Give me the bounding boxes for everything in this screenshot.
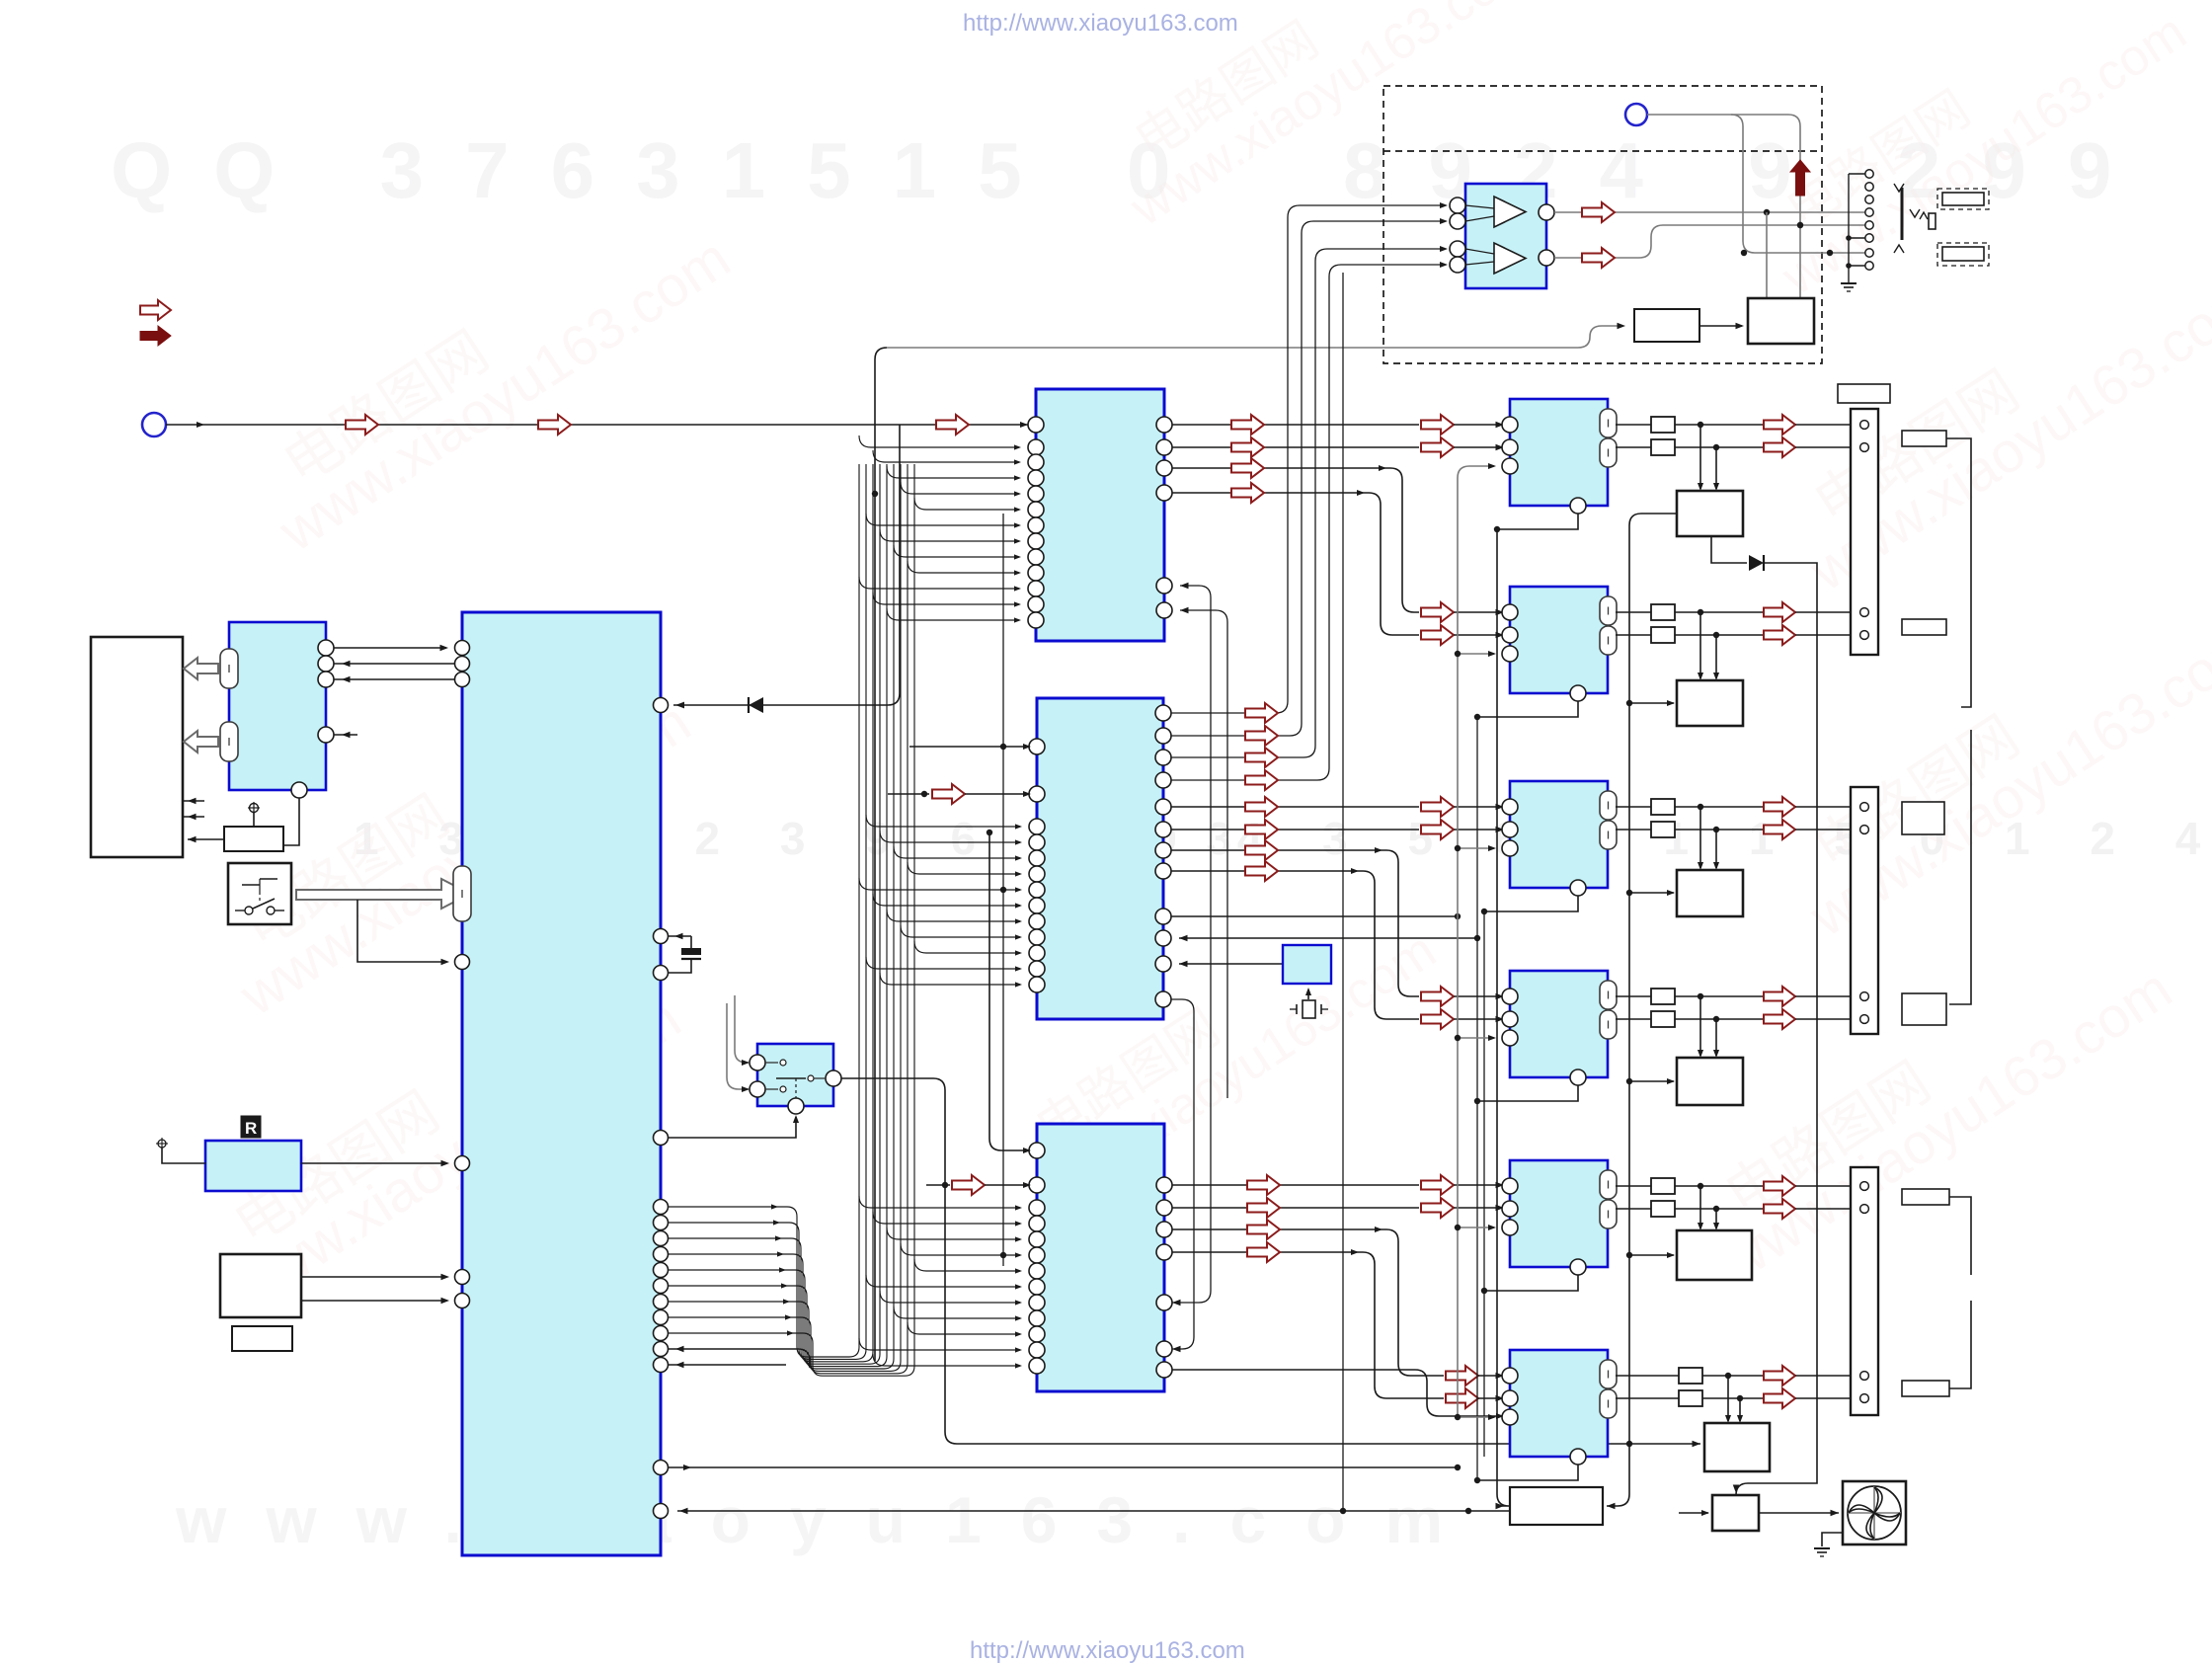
bracket 4 — [1949, 1301, 1971, 1388]
pin B bottom — [1570, 685, 1586, 701]
wire pin3 feed — [1458, 1037, 1494, 1039]
headphone jack contacts — [1865, 170, 1873, 178]
dot E1 — [1698, 1183, 1703, 1189]
pill B out2 — [1600, 626, 1617, 655]
wire branch IC103 — [873, 1354, 1020, 1366]
wire A out2 — [1616, 446, 1651, 448]
wire E bottom pin — [1484, 1275, 1578, 1291]
pill port 1 — [220, 649, 238, 688]
resistor RB1 — [1651, 604, 1675, 620]
pin IC102 R4 — [1155, 772, 1171, 788]
pin IC103 R7 — [1156, 1362, 1172, 1378]
svg-text:R: R — [245, 1119, 257, 1138]
wire branch IC101 — [873, 450, 1019, 462]
jack wiring — [1849, 173, 1865, 175]
wire branch IC103 — [859, 1338, 1020, 1350]
IC102 audio processor — [1037, 698, 1163, 1019]
power block — [220, 1254, 301, 1317]
arrow IC103 out4 s2 — [1446, 1388, 1478, 1408]
arrow F out2 — [1764, 1388, 1795, 1408]
pin IC101 R3 — [1156, 460, 1172, 476]
dot IC101 in5 — [872, 491, 878, 497]
pin IC001 d0 — [654, 1200, 669, 1215]
arrow C out2 — [1764, 820, 1795, 839]
pin IC103 L13 — [1029, 1358, 1045, 1374]
pin IC101 L10 — [1028, 565, 1044, 581]
pin IC101 fbB — [1156, 602, 1172, 618]
pin IC001 ps1 — [455, 1270, 470, 1285]
wire branch IC102 — [866, 957, 1020, 969]
pill F out1 — [1600, 1360, 1617, 1388]
wire branch IC103 — [880, 1291, 1020, 1303]
wire branch IC101 — [866, 514, 1019, 525]
wire E out1 — [1616, 1185, 1651, 1187]
pin IC103 L8 — [1029, 1279, 1045, 1295]
white arrow to display 2 — [184, 731, 218, 752]
wire branch IC102 — [908, 862, 1020, 874]
arrow IC102 out6 s2 — [1421, 820, 1454, 839]
pin IC103 R3 — [1156, 1222, 1172, 1237]
wire IC001 bottom in — [677, 1510, 1510, 1512]
pill IC001 key-in — [453, 866, 471, 921]
wire bus x1476 pin3 feeds — [1458, 466, 1494, 1418]
wire branch IC102 — [880, 831, 1020, 842]
input node circle — [142, 413, 166, 436]
wire SW101 out — [841, 1078, 1700, 1444]
wire branch IC102 — [866, 815, 1020, 827]
wire branch IC103 — [901, 1243, 1020, 1255]
ground fan — [1822, 1533, 1843, 1546]
dot A1 — [1698, 422, 1703, 428]
wire pin3 feed — [1458, 1416, 1494, 1418]
dot C1 — [1698, 804, 1703, 810]
pin IC102 L3 — [1029, 819, 1045, 834]
wire IC101 fbB — [1180, 610, 1227, 1098]
pill A out2 — [1600, 438, 1617, 467]
pin B3 — [1502, 646, 1518, 662]
wire SW101 in2 — [727, 1003, 749, 1089]
pin IC001 ps2 — [455, 1294, 470, 1308]
IR receiver block — [205, 1141, 301, 1191]
pin IC201 out3 — [318, 672, 334, 687]
pill E out2 — [1600, 1200, 1617, 1228]
pin IC102 L9 — [1029, 913, 1045, 929]
power switch block — [228, 863, 291, 924]
pin IC001 L1 — [455, 641, 470, 656]
pin HP L3 — [1450, 241, 1465, 257]
wire branch IC103 — [914, 1259, 1020, 1271]
arrow B out2 — [1764, 625, 1795, 645]
pin IC001 sw — [654, 1131, 669, 1146]
pin IC102 L13 — [1029, 977, 1045, 992]
bracket 2 — [1949, 730, 1971, 1004]
wire SW101 bottom feed — [669, 1117, 796, 1138]
pin IC103 R6 — [1156, 1341, 1172, 1357]
pin C bottom — [1570, 880, 1586, 896]
arrow input 3 — [936, 415, 969, 435]
fan motor — [1843, 1481, 1906, 1544]
pin IC103 L3 — [1029, 1200, 1045, 1216]
pin IC102 L12 — [1029, 961, 1045, 977]
resistor RF1 — [1679, 1368, 1702, 1384]
wire bus IC201-IC001 1 — [334, 647, 446, 649]
power arrow up — [1790, 160, 1810, 196]
wire branch IC102 — [894, 846, 1020, 858]
connector CN2 — [1851, 787, 1878, 1034]
resistor RA1 — [1651, 417, 1675, 433]
pin IC101 L12 — [1028, 596, 1044, 612]
label A — [1902, 431, 1946, 446]
buffer amp 2 — [1494, 243, 1526, 274]
wire IC001 bottom out — [669, 1466, 1458, 1468]
wire branch IC101 — [908, 561, 1019, 573]
wire gray rect2 up — [1766, 212, 1768, 298]
white arrow to display 1 — [184, 658, 218, 679]
watermark pink rotated — [238, 181, 741, 564]
resistor RF2 — [1679, 1390, 1702, 1406]
wire D out1 — [1616, 995, 1651, 997]
wire bus IC201-IC001 2 — [334, 663, 454, 665]
pin IC001 d2 — [654, 1231, 669, 1246]
wire D out2 — [1616, 1018, 1651, 1020]
wire branch IC102 — [914, 941, 1020, 953]
wire C out2 — [1616, 829, 1651, 831]
pin C2 — [1502, 822, 1518, 837]
bracket 3 — [1949, 1197, 1971, 1275]
svg-text:http://www.xiaoyu163.com: http://www.xiaoyu163.com — [963, 10, 1238, 37]
arrow C out1 — [1764, 797, 1795, 817]
wire branch IC102 — [901, 925, 1020, 937]
pin IC102 L8 — [1029, 898, 1045, 913]
pin HP L2 — [1450, 213, 1465, 229]
driver IC A — [1677, 491, 1743, 536]
driver IC E — [1677, 1230, 1752, 1280]
pin IC101 L6 — [1028, 502, 1044, 517]
resistor RC2 — [1651, 822, 1675, 837]
crystal X102 — [1307, 990, 1309, 999]
power sub block — [232, 1326, 292, 1351]
wire F bottom pin — [1477, 1465, 1578, 1480]
wire pin3 feed — [1458, 1227, 1494, 1228]
pin IC103 R1 — [1156, 1177, 1172, 1193]
wire vert x1357 — [1342, 273, 1344, 1511]
pin C3 — [1502, 840, 1518, 856]
pin IC102 R2 — [1155, 728, 1171, 744]
wire bus to driver IC E — [1629, 1254, 1674, 1256]
resistor RB2 — [1651, 627, 1675, 643]
wire bus to headphone box — [887, 326, 1621, 348]
pin A2 — [1502, 439, 1518, 455]
pin IC201 bottom — [291, 782, 307, 798]
wire D to driver IC — [1699, 996, 1701, 1056]
pin F2 — [1502, 1390, 1518, 1406]
SW101 mode switch — [757, 1044, 833, 1106]
pin A bottom — [1570, 498, 1586, 514]
pin IC102 L6 — [1029, 866, 1045, 882]
wire power branch — [357, 900, 446, 962]
pin IC102 R11 — [1155, 956, 1171, 972]
wire branch IC101 — [880, 529, 1019, 541]
pin IC103 L7 — [1029, 1263, 1045, 1279]
pin C1 — [1502, 799, 1518, 815]
IC101 audio DSP — [1036, 389, 1164, 641]
pin IC101 L9 — [1028, 549, 1044, 565]
arrow input 2 — [538, 415, 571, 435]
wire C bottom pin — [1484, 896, 1578, 911]
wire IC102 out7 to driver D — [1171, 850, 1419, 996]
wire F out1 — [1616, 1375, 1679, 1377]
dot IC103 — [1000, 1252, 1006, 1258]
pin IC101 L11 — [1028, 581, 1044, 596]
wire IC103 in2 — [926, 1184, 950, 1186]
pin IC001 fb1 — [654, 1342, 669, 1357]
pin IC103 L9 — [1029, 1295, 1045, 1310]
bottom control block — [1510, 1487, 1603, 1525]
wire bus x1650 — [1607, 514, 1677, 1506]
dot B1 — [1698, 609, 1703, 615]
pin HP R2 — [1539, 250, 1554, 266]
pin IC001 d5 — [654, 1279, 669, 1294]
wire E to driver IC — [1699, 1186, 1701, 1228]
wire A out1 — [1616, 424, 1651, 426]
label C — [1902, 802, 1944, 834]
driver IC B — [1677, 680, 1743, 726]
wire IC102 to headphone — [1171, 221, 1444, 736]
arrow IC101 out2 s2 — [1421, 437, 1454, 457]
pin IC001 d6 — [654, 1295, 669, 1309]
arrow IC103 out2 s2 — [1421, 1198, 1454, 1218]
IC103 audio processor — [1037, 1124, 1164, 1391]
driver IC C — [1677, 870, 1743, 916]
wire B bottom pin — [1477, 701, 1578, 717]
wire from node — [1647, 115, 1800, 298]
pin F1 — [1502, 1368, 1518, 1384]
driver block E — [1510, 1160, 1608, 1267]
pin IC103 L10 — [1029, 1310, 1045, 1326]
wire branch IC102 — [873, 894, 1020, 906]
wire A bottom pin — [1497, 514, 1578, 529]
wire branch IC103 — [866, 1275, 1020, 1287]
wire B to driver IC — [1699, 612, 1701, 678]
pin E3 — [1502, 1220, 1518, 1235]
wire IC102 in2 — [888, 793, 929, 795]
pin IC001 b1 — [654, 1461, 669, 1475]
wire display stub 1 — [184, 800, 204, 802]
wire power out 1 — [301, 1276, 446, 1278]
X101 osc block — [1283, 945, 1331, 984]
wire reset to display — [188, 838, 224, 840]
label B — [1902, 619, 1946, 635]
IC001 system control — [462, 612, 661, 1555]
wire power out 2 — [301, 1300, 446, 1302]
svg-text:www.xiaoyu163.com: www.xiaoyu163.com — [175, 1483, 1482, 1556]
wire IC102 out8 to driver D — [1171, 871, 1419, 1019]
dot A2 — [1713, 444, 1719, 450]
wire branch IC101 — [873, 593, 1019, 604]
pin IC102 L1 — [1029, 739, 1045, 754]
arrow IC101 out3 s2 — [1421, 602, 1454, 622]
pin IC103 R2 — [1156, 1200, 1172, 1216]
pin D3 — [1502, 1030, 1518, 1046]
wire vertical x1016 — [1002, 514, 1004, 1266]
pin HP R1 — [1539, 204, 1554, 220]
dashed enclosure headphone — [1383, 86, 1822, 363]
wire main input — [166, 424, 1028, 426]
pin D2 — [1502, 1011, 1518, 1027]
wire branch IC102 — [880, 973, 1020, 985]
wire A to driver IC — [1699, 425, 1701, 489]
wire bus x1496 — [1476, 717, 1478, 1480]
wire IC102 to headphone — [1171, 249, 1444, 757]
pin D bottom — [1570, 1069, 1586, 1085]
pin IC101 L2 — [1028, 439, 1044, 455]
arrow IC101 out1 s2 — [1421, 415, 1454, 435]
arrow B out1 — [1764, 602, 1795, 622]
wire IC102 to headphone — [1171, 265, 1444, 780]
diode D2 line — [1711, 536, 1747, 563]
wire fan drive in — [1679, 1512, 1708, 1514]
pin IC001 diode — [654, 698, 669, 713]
wire branch IC101 — [859, 577, 1019, 589]
arrow IC103 out1 s2 — [1421, 1175, 1454, 1195]
display block — [91, 637, 183, 857]
pin E bottom — [1570, 1259, 1586, 1275]
IR antenna — [158, 1140, 166, 1148]
resistor RE1 — [1651, 1178, 1675, 1194]
pin IC102 R7 — [1155, 842, 1171, 858]
pin IC102 R12 — [1155, 991, 1171, 1007]
connector CN1 — [1851, 409, 1878, 655]
capacitor X001 — [669, 935, 691, 937]
pill E out1 — [1600, 1170, 1617, 1199]
wire branch IC101 — [859, 436, 1019, 447]
wire bus IC201-IC001 3 — [334, 678, 454, 680]
pin IC001 fb2 — [654, 1358, 669, 1373]
wire HP out2 — [1554, 225, 1865, 258]
HP amp block — [1465, 184, 1546, 288]
dot D1 — [1698, 993, 1703, 999]
pin IC102 L11 — [1029, 945, 1045, 961]
pin IC103 L6 — [1029, 1247, 1045, 1263]
pin IC103 R4 — [1156, 1244, 1172, 1260]
svg-text:http://www.xiaoyu163.com: http://www.xiaoyu163.com — [970, 1637, 1245, 1663]
wire D bottom pin — [1477, 1085, 1578, 1101]
bracket 1 — [1946, 438, 1971, 707]
wire C to driver IC — [1699, 807, 1701, 868]
pin IC001 L3 — [455, 673, 470, 687]
pin IC102 L5 — [1029, 850, 1045, 866]
pin IC103 L12 — [1029, 1342, 1045, 1358]
driver block B — [1510, 587, 1608, 693]
wire IC103 out5 — [1172, 1370, 1502, 1416]
big arrow power to IC001 — [296, 879, 470, 909]
wire B out1 — [1616, 611, 1651, 613]
dot F1 — [1725, 1373, 1731, 1379]
pin IC001 d1 — [654, 1216, 669, 1230]
pin SW101 L1 — [750, 1055, 765, 1070]
wire IC103 out1 — [1172, 1184, 1419, 1186]
pill A out1 — [1600, 409, 1617, 437]
wire IC103 out2 — [1172, 1207, 1419, 1209]
pin HP L1 — [1450, 198, 1465, 213]
arrow E out2 — [1764, 1199, 1795, 1219]
resistor RE2 — [1651, 1201, 1675, 1217]
wire branch IC102 — [887, 910, 1020, 921]
wire F to driver IC — [1727, 1376, 1729, 1421]
pin IC103 L2 — [1029, 1177, 1045, 1193]
pin HP L4 — [1450, 257, 1465, 273]
wire bus x1516 — [1497, 529, 1509, 1506]
wire branch to diode — [673, 425, 900, 705]
label E — [1902, 1189, 1949, 1205]
pin IC101 R1 — [1156, 417, 1172, 433]
pin E1 — [1502, 1178, 1518, 1194]
pin IC001 d8 — [654, 1326, 669, 1341]
wire branch IC101 — [901, 482, 1019, 494]
resistor RD1 — [1651, 989, 1675, 1004]
wire IC101 out1 — [1172, 424, 1419, 426]
pin IC001 b2 — [654, 1504, 669, 1519]
wire branch IC103 — [908, 1322, 1020, 1334]
wire IC101 fbA — [1172, 586, 1211, 1303]
pin IC101 L13 — [1028, 612, 1044, 628]
arrow A out2 — [1764, 437, 1795, 457]
pill F out2 — [1600, 1389, 1617, 1418]
pin IC001 L2 — [455, 657, 470, 672]
pin B2 — [1502, 627, 1518, 643]
wire IC102 down to IC103 — [1171, 999, 1194, 1349]
pin IC103 L4 — [1029, 1216, 1045, 1231]
node circle headphone — [1625, 104, 1647, 125]
arrow A out1 — [1764, 415, 1795, 435]
pin B1 — [1502, 604, 1518, 620]
wire pin3 feed — [1458, 653, 1494, 655]
wire IC201 bottom to reset — [283, 798, 299, 845]
wire fan driver out — [1759, 1512, 1839, 1514]
wire IC103 out4 to driver F — [1172, 1252, 1444, 1398]
pin A1 — [1502, 417, 1518, 433]
pin IC102 R1 — [1155, 705, 1171, 721]
mute block — [1634, 309, 1699, 342]
pill D out1 — [1600, 981, 1617, 1009]
pin IC102 L10 — [1029, 929, 1045, 945]
pin IC101 L7 — [1028, 517, 1044, 533]
resistor RC1 — [1651, 799, 1675, 815]
dot C2 — [1713, 827, 1719, 832]
wire IC103 in1 — [989, 832, 1029, 1150]
dot IC102 — [1000, 887, 1006, 893]
pin IC102 L7 — [1029, 882, 1045, 898]
pin IC102 R6 — [1155, 822, 1171, 837]
pin IC103 R5 — [1156, 1295, 1172, 1310]
pin IC101 L1 — [1028, 417, 1044, 433]
wire branch IC102 — [859, 878, 1020, 890]
dot j1 — [1797, 222, 1803, 228]
wire IC102 xtal — [1179, 963, 1283, 965]
wire branch IC101 — [887, 608, 1019, 620]
arrow IC102 out5 s2 — [1421, 797, 1454, 817]
wire F out2 — [1616, 1397, 1679, 1399]
wire IR out — [301, 1162, 446, 1164]
pin IC101 fbA — [1156, 578, 1172, 594]
pin IC001 d3 — [654, 1247, 669, 1262]
pin IC001 d7 — [654, 1310, 669, 1325]
IC201 block — [229, 622, 326, 790]
resistor RA2 — [1651, 439, 1675, 455]
wire IC102 out6 — [1171, 829, 1419, 831]
pill B out1 — [1600, 596, 1617, 625]
wire node branch — [1731, 115, 1865, 253]
